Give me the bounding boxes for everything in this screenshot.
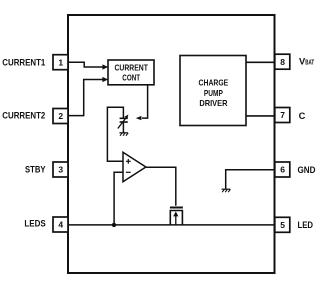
svg-text:4: 4 xyxy=(58,220,63,230)
svg-text:7: 7 xyxy=(280,110,285,120)
pin 7 box xyxy=(275,108,290,123)
label C xyxy=(299,111,306,121)
capacitor bottom stem xyxy=(122,122,124,133)
svg-text:1: 1 xyxy=(58,57,63,67)
svg-text:STBY: STBY xyxy=(25,164,46,174)
wire LEDS pin4 to LED pin5 xyxy=(69,224,275,226)
pin 2 box xyxy=(53,109,68,124)
svg-text:LEDS: LEDS xyxy=(24,219,45,229)
pin 4 box xyxy=(53,217,68,232)
IC package outline U1 xyxy=(68,15,275,273)
label GND xyxy=(298,165,316,175)
svg-text:8: 8 xyxy=(280,57,285,67)
svg-text:CURRENT2: CURRENT2 xyxy=(2,110,45,120)
wire pin1 to CURRENT CONT xyxy=(69,62,109,69)
label LED xyxy=(298,220,314,230)
wire pin 6 to ground xyxy=(226,170,275,189)
ground under capacitor xyxy=(119,133,128,136)
junction dot on LEDS net xyxy=(112,223,116,227)
block CHARGE PUMP DRIVER xyxy=(180,56,246,126)
ground symbol near pin 6 xyxy=(222,189,231,192)
pin 8 box xyxy=(275,54,290,69)
svg-text:6: 6 xyxy=(280,165,285,175)
label LEDS xyxy=(24,219,45,229)
svg-text:CHARGE: CHARGE xyxy=(199,78,229,88)
label VBAT xyxy=(299,57,315,67)
svg-text:LED: LED xyxy=(298,220,314,230)
svg-text:5: 5 xyxy=(280,220,285,230)
op-amp U2 xyxy=(123,152,146,181)
wire op-amp minus input to LEDS net xyxy=(114,172,122,225)
label STBY xyxy=(25,164,46,174)
svg-text:CURRENT1: CURRENT1 xyxy=(2,57,45,67)
svg-text:GND: GND xyxy=(298,165,316,175)
svg-text:DRIVER: DRIVER xyxy=(199,98,227,108)
wire pin2 to CURRENT CONT xyxy=(69,77,109,116)
label CURRENT2 xyxy=(2,110,45,120)
pin 5 box xyxy=(275,217,290,232)
svg-text:C: C xyxy=(299,111,306,121)
wire CURRENT CONT output control arrow xyxy=(136,85,148,120)
svg-text:PUMP: PUMP xyxy=(204,88,223,98)
svg-text:CONT: CONT xyxy=(122,73,140,83)
label CURRENT1 xyxy=(2,57,45,67)
pin 3 box xyxy=(53,162,68,177)
wire CHARGE PUMP to pin 8 xyxy=(246,61,275,63)
wire cap top to op-amp plus input xyxy=(107,107,123,161)
svg-text:CURRENT: CURRENT xyxy=(114,62,148,72)
svg-text:3: 3 xyxy=(58,165,63,175)
transistor Q1 MOSFET xyxy=(170,208,183,225)
block CURRENT CONT xyxy=(108,60,154,85)
svg-text:BAT: BAT xyxy=(305,60,314,67)
svg-text:2: 2 xyxy=(58,111,63,121)
wire op-amp output to MOSFET gate xyxy=(146,167,176,206)
wire CHARGE PUMP to pin 7 xyxy=(246,115,275,117)
variable capacitor arrow xyxy=(118,115,129,129)
pin 1 box xyxy=(53,55,68,70)
pin 6 box xyxy=(275,162,290,177)
variable capacitor C1 plates xyxy=(120,118,128,122)
